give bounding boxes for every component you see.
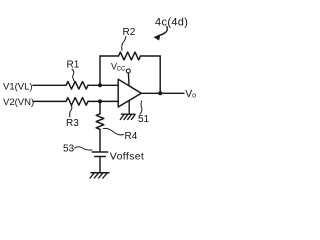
wire op-amp output — [141, 92, 184, 94]
wire R3 to op-amp non-inverting input — [88, 100, 118, 102]
svg-text:R1: R1 — [67, 60, 80, 71]
svg-text:R4: R4 — [125, 131, 138, 142]
label R1 — [67, 60, 80, 82]
wire V2 input to R3 — [33, 100, 66, 102]
resistor R1 — [66, 82, 88, 90]
wire feedback top right — [141, 55, 161, 57]
power Vcc terminal — [126, 69, 130, 86]
node V2 input label — [3, 97, 34, 108]
svg-text:Vo: Vo — [185, 88, 196, 100]
wire op-amp to ground — [128, 100, 130, 114]
svg-text:4c(4d): 4c(4d) — [155, 17, 188, 29]
svg-text:51: 51 — [138, 114, 150, 125]
node output junction — [158, 91, 162, 95]
wire R1 to op-amp inverting input — [88, 84, 118, 86]
wire R4 to Voffset — [99, 129, 101, 151]
battery Voffset — [92, 152, 107, 173]
wire feedback right vertical — [159, 56, 161, 93]
label R3 — [66, 105, 79, 129]
wire feedback left vertical — [99, 56, 101, 85]
label 53 — [63, 144, 92, 155]
node inverting input junction — [98, 83, 102, 87]
svg-text:V2(VN): V2(VN) — [3, 97, 34, 108]
label R4 — [104, 128, 138, 142]
svg-text:53: 53 — [63, 144, 75, 155]
label Voffset — [110, 151, 144, 163]
svg-text:R2: R2 — [123, 27, 136, 38]
arrow callout 4c(4d) — [154, 27, 168, 41]
wire feedback top left — [100, 55, 119, 57]
label R2 — [122, 27, 136, 51]
resistor R3 — [66, 98, 88, 106]
svg-text:R3: R3 — [66, 118, 79, 129]
svg-text:V1(VL): V1(VL) — [3, 81, 33, 92]
label 4c(4d) — [155, 17, 188, 29]
wire non-inverting node to R4 — [99, 101, 101, 113]
label Vcc — [111, 62, 126, 73]
node non-inverting input junction — [98, 99, 102, 103]
svg-text:Voffset: Voffset — [110, 151, 144, 163]
label 51 — [138, 101, 150, 125]
resistor R4 — [96, 114, 104, 130]
ground (op-amp) — [120, 114, 135, 119]
resistor R2 — [119, 52, 141, 60]
node V1 input label — [3, 81, 33, 92]
node Vo output label — [185, 88, 196, 100]
op-amp 51 — [118, 79, 141, 107]
ground (Voffset) — [90, 173, 109, 178]
wire V1 input to R1 — [33, 84, 66, 86]
